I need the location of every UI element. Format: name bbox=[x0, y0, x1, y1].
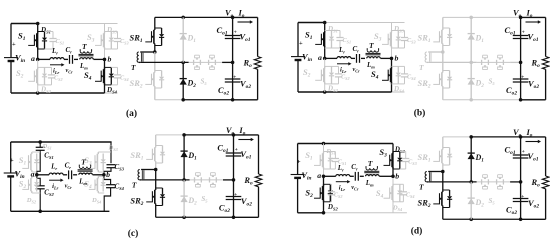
svg-text:SR2: SR2 bbox=[418, 78, 431, 90]
svg-text:(d): (d) bbox=[411, 226, 423, 237]
svg-text:S5: S5 bbox=[489, 197, 496, 206]
svg-text:SR1: SR1 bbox=[418, 33, 431, 45]
svg-text:Cr: Cr bbox=[66, 46, 73, 55]
svg-text:Vo: Vo bbox=[225, 7, 234, 19]
svg-text:DS4: DS4 bbox=[393, 85, 405, 94]
svg-text:Ro: Ro bbox=[243, 58, 253, 70]
svg-text:+: + bbox=[297, 159, 301, 166]
svg-text:b: b bbox=[106, 170, 110, 179]
svg-text:S3: S3 bbox=[379, 147, 387, 159]
svg-text:CS4: CS4 bbox=[406, 191, 415, 199]
svg-text:D2: D2 bbox=[187, 196, 197, 207]
svg-text:S2: S2 bbox=[19, 179, 27, 191]
svg-text:S4: S4 bbox=[376, 188, 384, 200]
svg-text:S5: S5 bbox=[201, 195, 208, 204]
svg-text:S2: S2 bbox=[305, 188, 313, 200]
svg-text:(a): (a) bbox=[126, 108, 137, 119]
svg-text:S1: S1 bbox=[305, 150, 313, 162]
svg-text:Lm: Lm bbox=[365, 179, 374, 188]
svg-text:Co2: Co2 bbox=[506, 85, 517, 97]
svg-text:Co1: Co1 bbox=[217, 25, 228, 37]
svg-text:S5: S5 bbox=[489, 78, 496, 87]
svg-text:Ro: Ro bbox=[531, 58, 541, 70]
svg-text:vCr: vCr bbox=[65, 182, 73, 190]
svg-text:iLr: iLr bbox=[53, 67, 60, 75]
svg-text:S4: S4 bbox=[84, 70, 92, 82]
svg-text:S3: S3 bbox=[374, 31, 382, 43]
svg-text:Co2: Co2 bbox=[219, 203, 230, 215]
svg-text:Cr: Cr bbox=[353, 45, 360, 54]
svg-text:Co2: Co2 bbox=[218, 85, 229, 97]
svg-text:Ro: Ro bbox=[243, 175, 253, 187]
svg-text:iLr: iLr bbox=[340, 66, 347, 74]
svg-text:Vo1: Vo1 bbox=[240, 149, 251, 161]
svg-text:D2: D2 bbox=[475, 79, 485, 90]
svg-text:Vo2: Vo2 bbox=[241, 196, 252, 208]
svg-text:T: T bbox=[419, 183, 424, 192]
svg-text:DS1: DS1 bbox=[40, 26, 51, 35]
svg-text:S1: S1 bbox=[19, 155, 27, 167]
svg-text:Vo: Vo bbox=[513, 7, 522, 19]
svg-text:DS4: DS4 bbox=[91, 197, 102, 205]
svg-text:Co1: Co1 bbox=[505, 145, 516, 157]
svg-text:T: T bbox=[82, 42, 87, 51]
svg-text:+: + bbox=[522, 149, 525, 155]
svg-text:+: + bbox=[233, 75, 236, 81]
svg-text:b: b bbox=[395, 54, 399, 63]
svg-text:+: + bbox=[10, 157, 14, 164]
svg-text:SR2: SR2 bbox=[418, 198, 431, 210]
svg-text:Cr: Cr bbox=[351, 163, 358, 172]
svg-text:a: a bbox=[317, 171, 321, 180]
svg-text:CS3: CS3 bbox=[407, 37, 416, 45]
svg-text:S1: S1 bbox=[18, 31, 26, 43]
svg-text:(c): (c) bbox=[128, 228, 139, 239]
svg-text:DS2: DS2 bbox=[327, 85, 339, 94]
svg-text:+: + bbox=[234, 30, 237, 36]
svg-text:T: T bbox=[369, 41, 374, 50]
svg-text:+: + bbox=[299, 40, 303, 47]
svg-text:Co1: Co1 bbox=[217, 143, 228, 155]
svg-text:Vo2: Vo2 bbox=[240, 79, 251, 91]
svg-text:SR1: SR1 bbox=[130, 33, 143, 45]
svg-text:DS1: DS1 bbox=[327, 25, 338, 34]
svg-text:vCr: vCr bbox=[351, 184, 359, 192]
svg-text:SR1: SR1 bbox=[418, 152, 431, 164]
svg-text:T: T bbox=[419, 63, 424, 72]
svg-text:CS1: CS1 bbox=[56, 38, 65, 46]
svg-text:T: T bbox=[368, 159, 373, 168]
svg-text:a: a bbox=[31, 169, 35, 178]
svg-text:DS1: DS1 bbox=[42, 143, 52, 151]
svg-text:Vin: Vin bbox=[301, 170, 311, 182]
svg-text:Vo2: Vo2 bbox=[528, 198, 539, 210]
svg-text:DS3: DS3 bbox=[393, 25, 405, 34]
svg-text:D1: D1 bbox=[187, 151, 197, 162]
svg-text:+: + bbox=[522, 30, 525, 36]
svg-text:+: + bbox=[234, 192, 237, 198]
svg-text:CS3: CS3 bbox=[408, 159, 417, 167]
svg-text:CS2: CS2 bbox=[54, 74, 63, 82]
svg-text:a: a bbox=[318, 53, 322, 62]
svg-text:S4: S4 bbox=[371, 69, 379, 81]
svg-text:DS2: DS2 bbox=[327, 203, 339, 212]
svg-text:vCr: vCr bbox=[66, 67, 74, 75]
svg-text:CS2: CS2 bbox=[341, 73, 350, 81]
svg-text:+: + bbox=[521, 194, 524, 200]
svg-text:CS2: CS2 bbox=[334, 191, 343, 199]
svg-text:Io: Io bbox=[238, 125, 245, 137]
svg-text:CS1: CS1 bbox=[343, 37, 352, 45]
svg-text:+: + bbox=[12, 41, 16, 48]
svg-text:Co1: Co1 bbox=[505, 25, 516, 37]
svg-text:S5: S5 bbox=[201, 78, 208, 87]
svg-text:Vo1: Vo1 bbox=[528, 151, 539, 163]
svg-text:Vin: Vin bbox=[15, 169, 25, 181]
svg-text:SR2: SR2 bbox=[130, 196, 143, 208]
svg-text:b: b bbox=[395, 171, 399, 180]
svg-text:Lm: Lm bbox=[79, 62, 88, 71]
svg-text:Vin: Vin bbox=[302, 52, 312, 64]
svg-text:CS4: CS4 bbox=[115, 182, 125, 191]
svg-text:S2: S2 bbox=[303, 67, 311, 79]
svg-text:SR1: SR1 bbox=[130, 150, 143, 162]
svg-text:Io: Io bbox=[238, 7, 245, 19]
svg-text:DS4: DS4 bbox=[392, 205, 403, 213]
svg-text:T: T bbox=[131, 63, 136, 72]
svg-text:Lm: Lm bbox=[366, 61, 375, 70]
svg-text:Vo2: Vo2 bbox=[528, 79, 539, 91]
svg-text:Lr: Lr bbox=[51, 47, 58, 56]
svg-text:vCr: vCr bbox=[353, 66, 361, 74]
svg-text:S2: S2 bbox=[16, 68, 24, 80]
svg-text:Io: Io bbox=[526, 7, 533, 19]
svg-text:D1: D1 bbox=[475, 34, 485, 45]
svg-text:S3: S3 bbox=[87, 32, 95, 44]
svg-text:Io: Io bbox=[526, 127, 533, 139]
svg-text:Vo1: Vo1 bbox=[528, 32, 539, 44]
svg-text:DS4: DS4 bbox=[106, 86, 118, 95]
svg-text:DS3: DS3 bbox=[394, 146, 406, 155]
svg-text:(b): (b) bbox=[414, 108, 426, 119]
svg-text:Vo: Vo bbox=[513, 127, 522, 139]
svg-text:CS4: CS4 bbox=[120, 74, 129, 82]
svg-text:T: T bbox=[132, 181, 137, 190]
svg-text:D1: D1 bbox=[475, 153, 485, 164]
svg-text:b: b bbox=[108, 55, 112, 64]
svg-text:CS4: CS4 bbox=[407, 73, 416, 81]
svg-text:DS3: DS3 bbox=[108, 144, 119, 152]
svg-text:SR2: SR2 bbox=[130, 78, 143, 90]
svg-text:D1: D1 bbox=[187, 34, 197, 45]
svg-text:iLr: iLr bbox=[52, 183, 59, 191]
svg-text:Vo1: Vo1 bbox=[240, 32, 251, 44]
svg-text:DS2: DS2 bbox=[26, 197, 37, 205]
svg-text:CS3: CS3 bbox=[115, 163, 125, 172]
svg-text:D2: D2 bbox=[475, 198, 485, 209]
svg-text:+: + bbox=[235, 147, 238, 153]
svg-text:D2: D2 bbox=[187, 79, 197, 90]
svg-text:a: a bbox=[31, 54, 35, 63]
svg-text:DS3: DS3 bbox=[106, 26, 118, 35]
svg-text:Co2: Co2 bbox=[506, 205, 517, 217]
svg-text:CS3: CS3 bbox=[120, 38, 129, 46]
svg-text:iLr: iLr bbox=[339, 184, 346, 192]
svg-text:Lr: Lr bbox=[338, 46, 345, 55]
svg-text:+: + bbox=[521, 75, 524, 81]
svg-text:CS1: CS1 bbox=[44, 152, 53, 161]
svg-text:Cr: Cr bbox=[65, 161, 72, 170]
svg-text:DS2: DS2 bbox=[40, 86, 52, 95]
svg-text:Vin: Vin bbox=[15, 53, 25, 65]
svg-text:Ro: Ro bbox=[531, 177, 541, 189]
svg-text:Lr: Lr bbox=[50, 162, 57, 171]
svg-text:Vo: Vo bbox=[226, 125, 235, 137]
svg-text:S1: S1 bbox=[305, 30, 313, 42]
svg-text:T: T bbox=[81, 157, 86, 166]
